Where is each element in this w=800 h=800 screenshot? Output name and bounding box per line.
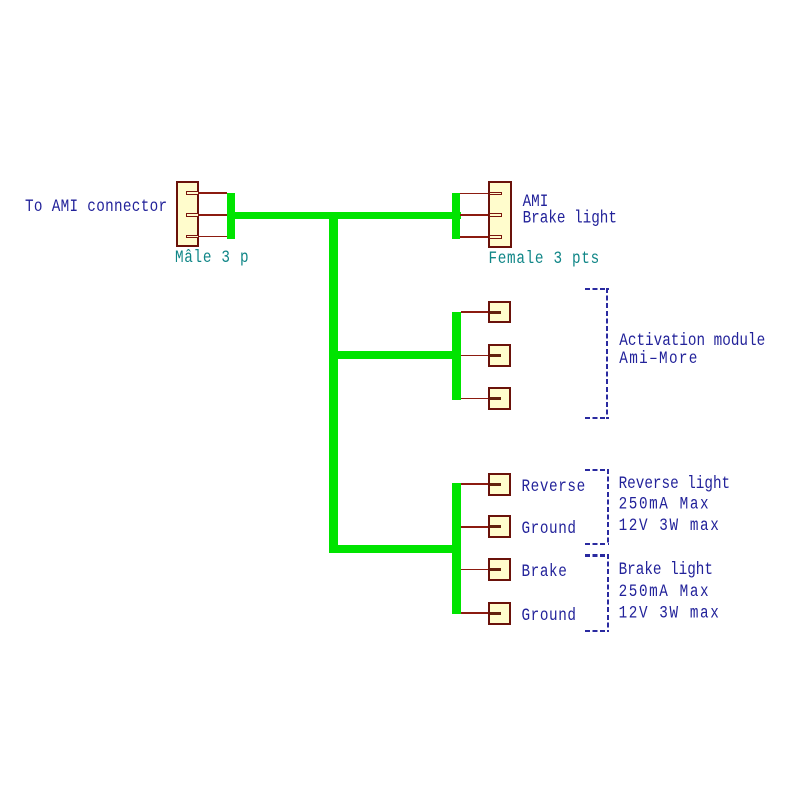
bracket brake light bottom xyxy=(585,630,609,632)
wire bottom elbow green xyxy=(329,545,461,554)
wire pin1 J2 xyxy=(460,193,488,195)
bus bar right green xyxy=(452,193,460,240)
label To AMI connector xyxy=(25,199,167,217)
bracket activation module vertical xyxy=(606,288,608,419)
bracket reverse light bottom xyxy=(585,543,609,545)
pin 3 J1 slot xyxy=(186,235,199,239)
pin bar mid 3 xyxy=(490,397,501,400)
pin 2 J2 slot xyxy=(489,213,502,217)
wire pin3 J1 xyxy=(199,236,228,238)
label Ground 2 xyxy=(522,608,577,626)
bus bar left green xyxy=(227,193,235,239)
label Brake xyxy=(522,564,568,582)
pin 3 J2 slot xyxy=(489,235,502,239)
bracket reverse light vertical xyxy=(607,469,609,545)
wire ground1 pin xyxy=(461,526,489,528)
wire mid pin1 xyxy=(461,311,489,313)
wire main horizontal green xyxy=(227,212,461,220)
bracket brake light vertical xyxy=(607,554,609,632)
terminal box ground1 xyxy=(488,515,511,538)
pin 2 J1 slot xyxy=(186,213,199,217)
terminal box ground2 xyxy=(488,602,511,625)
label Reverse xyxy=(522,479,586,497)
wire reverse pin xyxy=(461,483,489,485)
wire pin3 J2 xyxy=(460,236,488,238)
wire pin2 J1 xyxy=(199,214,228,216)
label Female 3 pts xyxy=(489,251,600,269)
connector J1 male 3p body xyxy=(176,181,200,247)
bracket brake light top xyxy=(585,554,609,556)
wire ground2 pin xyxy=(461,612,489,614)
pin 1 J2 slot xyxy=(489,192,502,196)
bracket activation module bottom xyxy=(585,417,609,419)
terminal box brake xyxy=(488,558,511,581)
pin bar mid 2 xyxy=(490,354,501,357)
terminal box reverse xyxy=(488,473,511,496)
wire mid pin3 xyxy=(461,398,489,400)
bracket reverse light top xyxy=(585,469,609,471)
bus bar mid green xyxy=(452,312,461,400)
wire pin2 J2 xyxy=(460,214,488,216)
label Brake light block xyxy=(619,561,721,626)
wire mid pin2 xyxy=(461,355,489,357)
wire brake pin xyxy=(461,569,489,571)
terminal box mid 3 xyxy=(488,387,511,410)
pin 1 J1 slot xyxy=(186,191,199,195)
connector J2 female 3pts body xyxy=(488,181,512,248)
terminal box mid 2 xyxy=(488,344,511,367)
pin bar mid 1 xyxy=(490,311,501,314)
label Ground 1 xyxy=(522,521,577,539)
label Male 3 p xyxy=(175,250,249,268)
pin bar brake xyxy=(490,568,501,571)
label AMI Brake light xyxy=(523,195,617,228)
bracket activation module top xyxy=(585,288,609,290)
wire pin1 J1 xyxy=(199,192,228,194)
wire trunk vertical green xyxy=(329,212,338,554)
pin bar ground1 xyxy=(490,525,501,528)
pin bar reverse xyxy=(490,483,501,486)
label Reverse light block xyxy=(619,475,731,537)
label Activation module Ami-More xyxy=(619,333,765,368)
bus bar bottom green xyxy=(452,483,461,614)
pin bar ground2 xyxy=(490,612,501,615)
wire mid branch green xyxy=(329,351,461,359)
terminal box mid 1 xyxy=(488,301,511,324)
